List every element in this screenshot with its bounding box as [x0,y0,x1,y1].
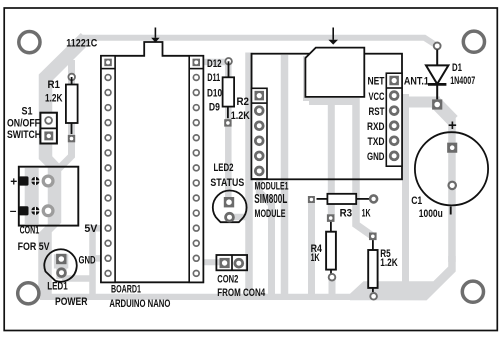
svg-text:LED1: LED1 [47,281,67,293]
svg-text:CON1: CON1 [20,225,39,237]
svg-text:D11: D11 [207,72,220,84]
svg-text:D1: D1 [452,62,462,74]
svg-text:RXD: RXD [367,121,385,133]
svg-text:FROM CON4: FROM CON4 [217,287,266,299]
svg-text:1.2K: 1.2K [231,110,250,122]
svg-text:5V: 5V [84,223,98,235]
svg-text:1N4007: 1N4007 [450,75,475,87]
svg-text:+: + [448,117,457,134]
svg-text:MODULE: MODULE [255,208,286,220]
svg-text:BOARD1: BOARD1 [111,284,141,296]
svg-text:–: – [10,203,17,217]
svg-text:FOR 5V: FOR 5V [18,241,51,253]
svg-text:STATUS: STATUS [210,177,244,189]
svg-text:S1: S1 [22,106,33,118]
svg-text:GND: GND [79,255,96,267]
svg-text:ANT.1: ANT.1 [404,76,429,88]
svg-text:NET: NET [368,76,385,88]
svg-text:R3: R3 [340,207,353,219]
svg-text:ON/OFF: ON/OFF [7,118,40,130]
svg-text:SIM800L: SIM800L [254,191,287,206]
svg-text:GND: GND [367,151,385,163]
svg-text:1K: 1K [311,252,320,264]
svg-text:D9: D9 [209,102,220,114]
svg-text:R1: R1 [48,79,61,91]
svg-text:11221C: 11221C [66,37,97,49]
svg-text:1K: 1K [362,207,371,219]
svg-text:TXD: TXD [368,136,385,148]
svg-text:+: + [10,174,17,188]
svg-text:D10: D10 [207,88,222,100]
svg-text:1000u: 1000u [419,208,443,220]
svg-text:D12: D12 [207,58,222,70]
svg-text:1.2K: 1.2K [45,93,63,105]
svg-text:1.2K: 1.2K [380,257,397,269]
svg-text:C1: C1 [411,195,422,207]
svg-text:R2: R2 [237,96,250,108]
svg-text:ARDUINO NANO: ARDUINO NANO [109,298,170,310]
svg-text:VCC: VCC [369,91,385,103]
svg-text:LED2: LED2 [214,162,234,174]
svg-text:POWER: POWER [55,296,88,308]
svg-text:SWITCH: SWITCH [7,129,41,141]
svg-text:RST: RST [369,106,385,118]
svg-text:CON2: CON2 [217,273,238,285]
